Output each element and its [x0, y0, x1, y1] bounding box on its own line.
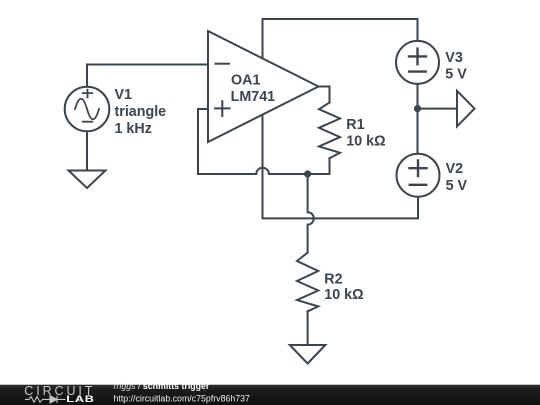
voltage source V2	[397, 154, 440, 197]
wire: output node to arrow	[418, 108, 458, 110]
svg-text:rriggs / schmitts trigger: rriggs / schmitts trigger	[114, 381, 210, 391]
output port arrow	[457, 91, 475, 127]
footer bar	[0, 385, 540, 405]
svg-text:V1: V1	[115, 87, 133, 103]
wire: R2 bottom lead to ground	[307, 311, 309, 345]
output node junction dot	[414, 105, 421, 112]
svg-text:R2: R2	[324, 271, 342, 287]
svg-text:1 kHz: 1 kHz	[115, 121, 152, 137]
svg-text:10 kΩ: 10 kΩ	[324, 287, 363, 303]
svg-text:5 V: 5 V	[445, 67, 467, 83]
svg-text:LM741: LM741	[231, 89, 276, 105]
wire: node A down to R2 (hop over supply wire)	[308, 174, 314, 253]
svg-text:R1: R1	[346, 117, 364, 133]
svg-text:5 V: 5 V	[446, 178, 468, 194]
wire: op-amp V+ supply to V3 top	[263, 19, 418, 60]
resistor R2	[297, 253, 318, 312]
wire: V1 top to op-amp inverting input	[87, 65, 208, 88]
svg-text:V2: V2	[446, 161, 464, 177]
op-amp OA1 triangle	[208, 31, 319, 142]
svg-text:triangle: triangle	[115, 104, 167, 120]
svg-text:OA1: OA1	[231, 72, 260, 88]
svg-text:http://circuitlab.com/c75pfrv8: http://circuitlab.com/c75pfrv86h737	[114, 393, 251, 403]
wire: V3 bottom to V2 top	[417, 84, 419, 154]
wire: op-amp V- supply to V2 bottom	[263, 114, 419, 218]
voltage source V1 (function generator)	[65, 87, 110, 132]
ground (below R2)	[290, 345, 326, 364]
wire: V1 bottom to ground	[86, 131, 88, 171]
svg-text:10 kΩ: 10 kΩ	[346, 133, 385, 149]
wire: op-amp non-inverting input to feedback node (hop over supply wire)	[198, 109, 330, 174]
svg-text:V3: V3	[445, 50, 463, 66]
node A junction dot (feedback node)	[304, 170, 311, 177]
resistor R1	[319, 103, 340, 159]
svg-text:LAB: LAB	[66, 395, 94, 405]
wire: op-amp output to R1 top	[319, 87, 330, 103]
CircuitLab logo resistor-diode glyph	[25, 396, 66, 403]
ground (below V1)	[69, 171, 106, 189]
voltage source V3	[396, 41, 439, 84]
wire: R1 bottom lead	[329, 158, 331, 174]
op-amp OA1 inverting input minus symbol	[216, 63, 230, 65]
op-amp OA1 non-inverting input plus symbol	[215, 101, 230, 116]
